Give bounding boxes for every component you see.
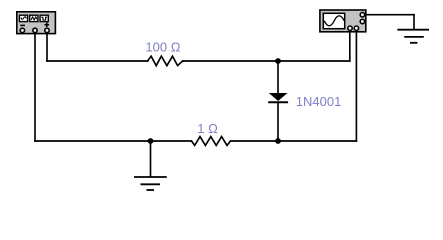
svg-text:1N4001: 1N4001 xyxy=(296,94,342,109)
svg-text:100 Ω: 100 Ω xyxy=(145,39,180,54)
svg-text:1 Ω: 1 Ω xyxy=(197,121,218,136)
